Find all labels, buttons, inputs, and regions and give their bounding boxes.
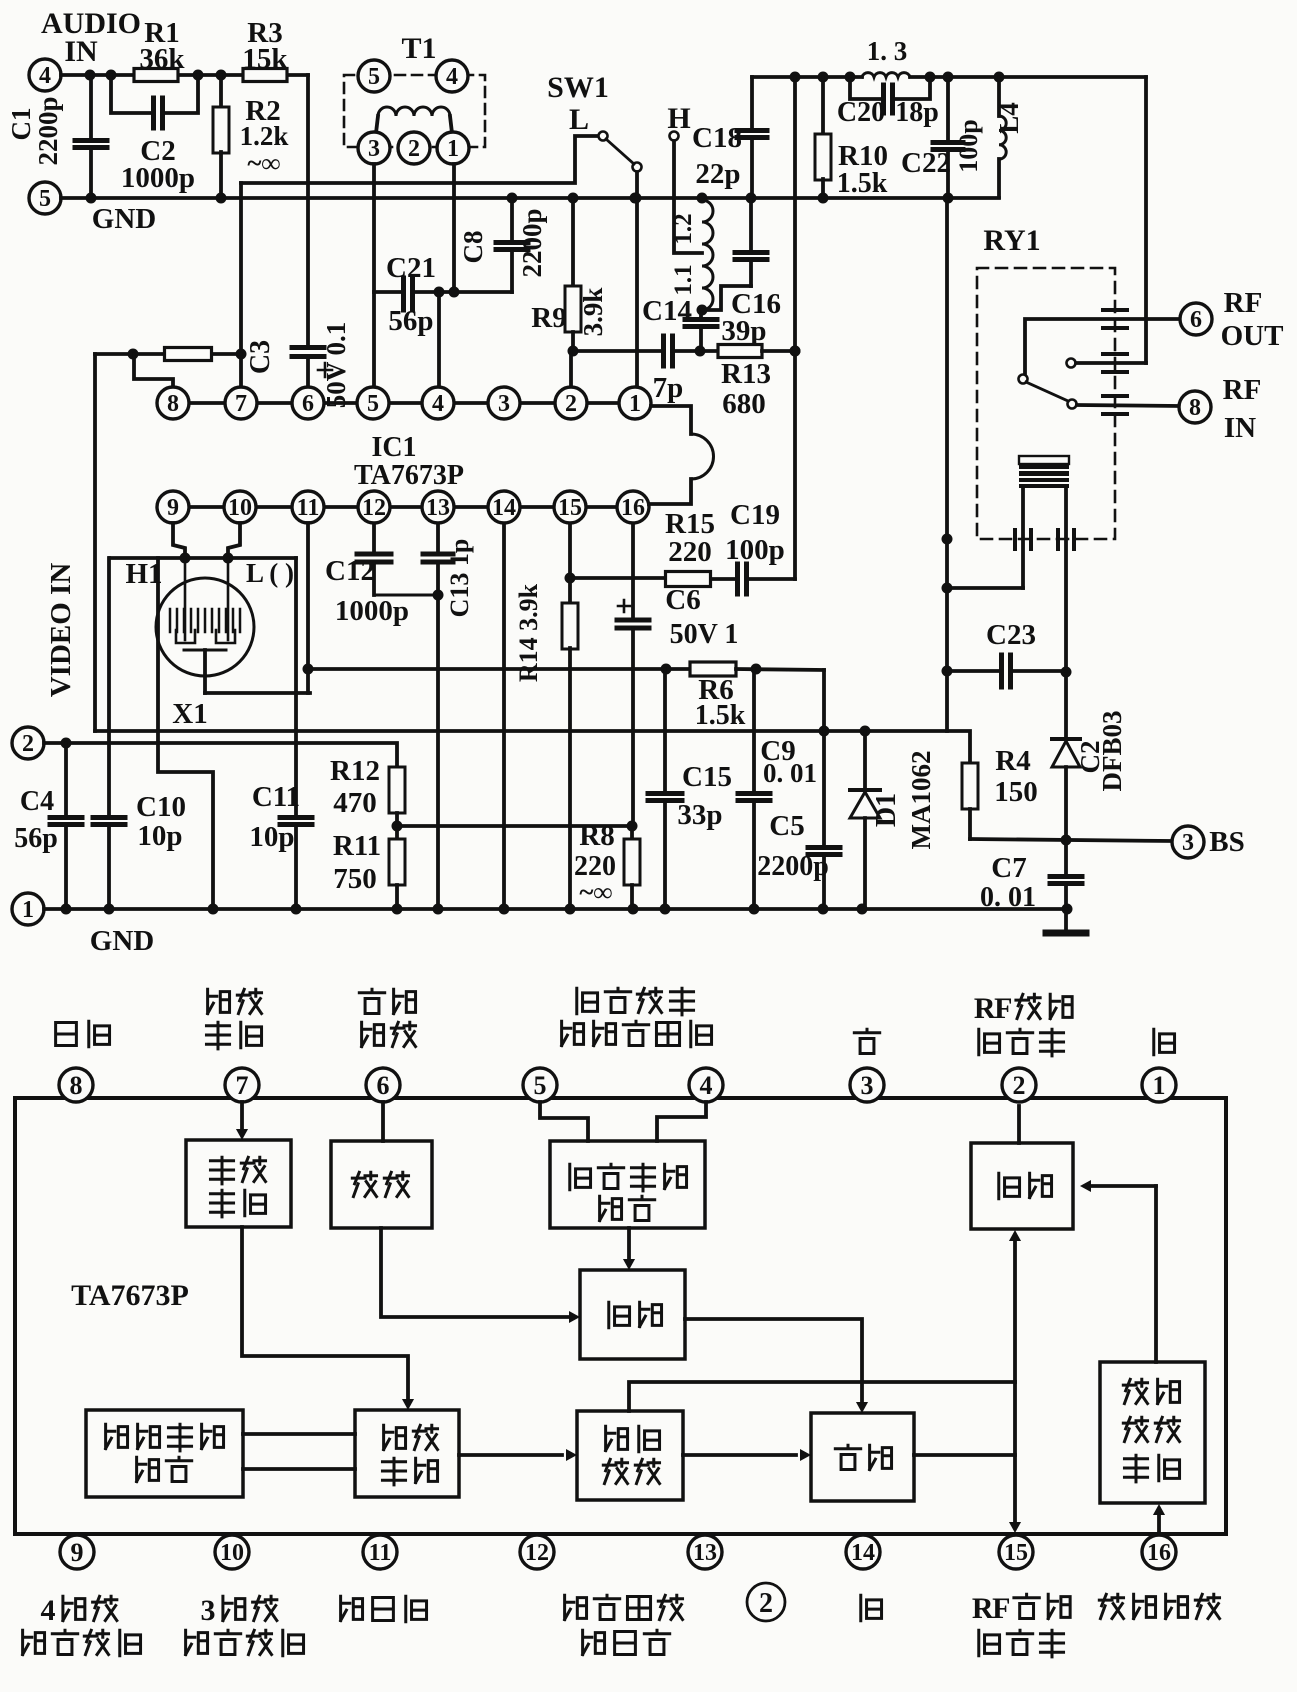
relay contact C to RF IN [1068, 400, 1077, 409]
crystal comb [169, 609, 172, 632]
svg-text:3: 3 [498, 391, 510, 417]
capacitor C15 [663, 669, 667, 791]
svg-text:D1: D1 [871, 793, 902, 827]
svg-text:2200p: 2200p [33, 96, 63, 165]
wire pin14 ground [502, 524, 506, 909]
svg-text:12: 12 [362, 495, 386, 521]
svg-text:470: 470 [333, 787, 377, 819]
svg-text:9: 9 [71, 1538, 84, 1567]
resistor R3 [243, 69, 287, 82]
wire pin7 vertical [239, 183, 243, 387]
svg-text:R13: R13 [721, 358, 771, 390]
svg-text:C21: C21 [386, 252, 436, 284]
capacitor C4 [64, 743, 68, 816]
block pin 7 [225, 1068, 259, 1102]
terminal 3 BS [1172, 826, 1204, 858]
wire bottom ground rail [44, 907, 1067, 911]
svg-text:100p: 100p [725, 534, 785, 566]
wire ground rail y198 [61, 196, 999, 200]
resistor R4 [95, 731, 970, 763]
svg-text:2200p: 2200p [517, 208, 547, 277]
wire buffer top to AM mod [629, 1382, 1015, 1411]
svg-text:F: F [994, 992, 1012, 1025]
svg-text:7p: 7p [653, 372, 684, 404]
svg-text:56p: 56p [14, 823, 58, 854]
feedthrough cap RF IN [1103, 394, 1127, 398]
svg-text:1000p: 1000p [335, 595, 409, 627]
capacitor C6 electrolytic [631, 524, 635, 618]
svg-text:IC1: IC1 [371, 432, 416, 463]
svg-text:C6: C6 [665, 584, 700, 616]
svg-text:IN: IN [1224, 412, 1256, 444]
block channel-convert box [355, 1410, 459, 1497]
svg-text:5: 5 [368, 64, 380, 90]
svg-text:IN: IN [64, 35, 98, 68]
wire pin2 into AM mod [1017, 1106, 1021, 1143]
block FM modulator box [580, 1270, 685, 1359]
block pin 14 [846, 1535, 880, 1569]
wire power vertical x95 [93, 354, 97, 731]
svg-text:GND: GND [90, 925, 154, 957]
feedthrough cap coil right [1056, 530, 1060, 549]
resistor R6 [690, 662, 736, 676]
svg-text:R: R [974, 992, 996, 1025]
svg-text:1: 1 [22, 897, 34, 923]
wire RF OUT to relay pivot [1025, 319, 1180, 374]
crystal cups [176, 630, 235, 643]
feedthrough cap RF OUT [1103, 308, 1127, 312]
svg-text:R4: R4 [995, 745, 1030, 777]
wire crystal case lead [158, 558, 213, 909]
svg-text:13: 13 [426, 495, 450, 521]
svg-text:VIDEO IN: VIDEO IN [45, 563, 77, 698]
svg-text:MA1062: MA1062 [906, 751, 936, 850]
svg-text:18p: 18p [895, 97, 939, 128]
block buffer-amp box [577, 1411, 683, 1500]
block switch-control box [186, 1140, 291, 1227]
svg-text:6: 6 [377, 1071, 390, 1100]
capacitor C8 [510, 198, 514, 241]
inductor 1.1-1.2 coil [702, 200, 713, 310]
svg-text:5: 5 [534, 1071, 547, 1100]
label pin11 function [341, 1596, 363, 1620]
svg-text:1: 1 [1153, 1071, 1166, 1100]
svg-text:C4: C4 [20, 786, 54, 817]
svg-text:C13 1p: C13 1p [445, 539, 474, 618]
block pin 13 [688, 1535, 722, 1569]
block amplifier box [331, 1141, 432, 1228]
capacitor C16 39p [699, 310, 703, 318]
svg-text:9: 9 [167, 495, 179, 521]
wire mixer output vertical [1013, 1238, 1017, 1382]
capacitor C2 [111, 75, 150, 113]
block pin 2 [1002, 1068, 1036, 1102]
wire osc to channel-convert lines [243, 1432, 355, 1436]
svg-text:C22: C22 [901, 147, 951, 179]
wire audio-in rail y75 [61, 73, 134, 77]
svg-text:L4: L4 [994, 102, 1024, 134]
svg-text:22p: 22p [695, 158, 740, 190]
svg-text:14: 14 [492, 495, 516, 521]
inductor 1.3 [862, 73, 910, 77]
wire pin7 into switch-control [240, 1102, 244, 1132]
svg-text:8: 8 [167, 391, 179, 417]
svg-text:3: 3 [1182, 830, 1194, 856]
svg-text:R: R [972, 1592, 994, 1625]
svg-text:C5: C5 [769, 810, 804, 842]
wire pin10 to crystal [228, 523, 240, 558]
capacitor C19 [735, 564, 740, 594]
wire coil bottom step to C16 upper [702, 286, 751, 310]
svg-text:16: 16 [621, 495, 645, 521]
svg-text:11: 11 [369, 1540, 392, 1566]
wire BS line [970, 839, 1172, 841]
block pin 1 [1142, 1068, 1176, 1102]
svg-text:C15: C15 [682, 761, 732, 793]
block pin 4 [689, 1068, 723, 1102]
wire rail to relay contact [1144, 77, 1148, 363]
svg-text:2: 2 [1013, 1071, 1026, 1100]
svg-text:~∞: ~∞ [247, 148, 280, 178]
capacitor C23 [947, 669, 1000, 673]
terminal 1 ground [12, 893, 44, 925]
figure number 2 [747, 1583, 785, 1621]
resistor R1 [134, 69, 178, 82]
svg-text:1.2: 1.2 [670, 213, 697, 244]
block pin 10 [215, 1535, 249, 1569]
capacitor C5 [822, 670, 826, 846]
capacitor C22 [946, 77, 950, 141]
svg-text:3.9k: 3.9k [578, 288, 608, 337]
block pin 9 [60, 1535, 94, 1569]
relay coil [1019, 456, 1069, 464]
svg-text:3: 3 [861, 1071, 874, 1100]
svg-text:4: 4 [432, 391, 444, 417]
feedthrough cap contact A [1103, 352, 1127, 356]
wire C21 node to IC pin4 [437, 292, 441, 387]
svg-text:C19: C19 [730, 499, 780, 531]
wire pin5 jog [540, 1102, 588, 1141]
svg-text:3: 3 [368, 136, 380, 162]
block pin 8 [59, 1068, 93, 1102]
svg-text:F: F [992, 1592, 1010, 1625]
svg-text:6: 6 [1190, 307, 1202, 333]
svg-text:100p: 100p [954, 119, 983, 172]
svg-text:6: 6 [302, 391, 314, 417]
svg-text:X1: X1 [172, 698, 207, 730]
svg-text:10p: 10p [249, 821, 294, 853]
svg-text:14: 14 [851, 1540, 875, 1566]
capacitor C14 7p [661, 336, 666, 366]
svg-text:39p: 39p [721, 315, 766, 347]
svg-text:4: 4 [446, 64, 458, 90]
svg-text:L ( ): L ( ) [246, 558, 294, 588]
wire AM mod right arrow [1088, 1184, 1156, 1188]
wire H contact to coil tap [674, 141, 702, 253]
svg-text:RY1: RY1 [983, 224, 1040, 257]
resistor R11 [389, 839, 405, 885]
svg-text:C23: C23 [986, 619, 1036, 651]
wire pin9 to crystal [173, 523, 185, 558]
svg-text:4: 4 [39, 63, 51, 89]
svg-text:15: 15 [1004, 1540, 1028, 1566]
wire switch-control to channel-convert [242, 1227, 408, 1402]
svg-text:C18: C18 [692, 122, 742, 154]
crystal X1 box [110, 556, 296, 560]
label pin16 function [1099, 1594, 1123, 1618]
wire buffer to mixer [683, 1453, 796, 1457]
resistor R10 [821, 77, 825, 135]
wire R6 line y669 [308, 667, 691, 671]
svg-text:C1: C1 [6, 108, 36, 141]
relay arm [1019, 375, 1028, 384]
diode D1 MA1062 [863, 731, 867, 789]
svg-text:8: 8 [1189, 395, 1201, 421]
svg-text:16: 16 [1147, 1540, 1171, 1566]
svg-text:GND: GND [92, 203, 156, 235]
svg-text:C7: C7 [991, 852, 1026, 884]
svg-text:2200p: 2200p [757, 851, 829, 882]
svg-text:33p: 33p [677, 799, 722, 831]
terminal 2 video [12, 727, 44, 759]
svg-text:150: 150 [994, 776, 1038, 808]
svg-text:RF: RF [1224, 287, 1263, 319]
terminal 6 RF OUT [1180, 303, 1212, 335]
resistor R8 [630, 826, 634, 838]
wire video line y743 [44, 743, 397, 767]
svg-text:7: 7 [235, 391, 247, 417]
svg-text:R9: R9 [531, 302, 566, 334]
relay coil right lead [1064, 488, 1068, 739]
wire audio osc line y578 [570, 576, 666, 580]
svg-text:1: 1 [447, 136, 459, 162]
block pin 6 [366, 1068, 400, 1102]
svg-text:4: 4 [700, 1071, 713, 1100]
wire coil to ground branch y588 [947, 586, 1023, 590]
svg-text:C11: C11 [252, 781, 300, 813]
capacitor C18 [750, 77, 754, 129]
svg-text:C14: C14 [642, 295, 692, 327]
svg-text:1.5k: 1.5k [695, 700, 746, 731]
resistor R12 [389, 767, 405, 813]
resistor R14 [568, 578, 572, 604]
svg-text:1. 3: 1. 3 [867, 36, 908, 66]
wire pin6 into amplifier [381, 1102, 385, 1141]
capacitor C10 line [107, 558, 111, 816]
svg-text:12: 12 [525, 1540, 549, 1566]
svg-text:11: 11 [297, 495, 320, 521]
wire amplifier to FM mod [381, 1228, 570, 1317]
svg-text:C8: C8 [458, 231, 488, 264]
svg-text:BS: BS [1209, 826, 1244, 858]
block pin 11 [363, 1535, 397, 1569]
svg-text:T1: T1 [401, 32, 436, 65]
wire pin15-16 interconnects [568, 524, 572, 578]
capacitor C20 18p [850, 77, 884, 99]
svg-text:RF: RF [1223, 374, 1262, 406]
wire R12-R11 junction to R8 [397, 824, 632, 828]
svg-text:10p: 10p [137, 820, 182, 852]
wire pin11 vertical [306, 523, 310, 693]
svg-text:SW1: SW1 [547, 71, 609, 104]
capacitor C3 [306, 75, 310, 344]
capacitor C11 line [294, 693, 298, 816]
svg-text:13: 13 [693, 1540, 717, 1566]
label pin12-13 function [565, 1595, 587, 1619]
svg-text:8: 8 [70, 1071, 83, 1100]
wire T1-pin1 down [452, 164, 456, 292]
relay contact A [1067, 359, 1076, 368]
block pin 16 [1142, 1535, 1176, 1569]
svg-text:10: 10 [220, 1540, 244, 1566]
wire pin1 to pin16 arc [651, 406, 691, 434]
svg-text:10: 10 [228, 495, 252, 521]
svg-text:750: 750 [333, 863, 377, 895]
resistor R15 [666, 572, 711, 587]
svg-text:R12: R12 [330, 755, 380, 787]
wire oscillator line y351 [573, 349, 663, 353]
wire channel-control line y183 [241, 136, 599, 183]
wire power resistor line y354 [95, 352, 165, 356]
svg-text:C12: C12 [325, 555, 375, 587]
svg-text:R11: R11 [333, 830, 381, 862]
svg-text:~∞: ~∞ [579, 877, 612, 907]
block RF carrier osc box [86, 1410, 243, 1497]
IC1 bottom pin row [173, 505, 633, 509]
svg-text:36k: 36k [139, 43, 185, 75]
wire pin8 jog [134, 354, 173, 387]
wire pin2 vertical [569, 351, 573, 387]
wire R13-C19 vertical x795 [793, 77, 797, 579]
wire T1-pin3 to IC pin5 [372, 164, 376, 387]
svg-text:15k: 15k [242, 43, 288, 75]
resistor R9 [571, 198, 575, 286]
diode C2 DFB03 [1052, 737, 1080, 741]
terminal 5 GND [29, 182, 61, 214]
wire FM mod to mixer [685, 1319, 862, 1405]
svg-text:2: 2 [759, 1588, 773, 1619]
wire ground branch x947 [945, 198, 949, 731]
svg-text:DFB03: DFB03 [1097, 711, 1127, 792]
svg-text:1.2k: 1.2k [240, 121, 289, 151]
wire SW1 arm to IC pin1 [635, 172, 639, 387]
capacitor C13 [436, 524, 440, 552]
svg-text:TA7673P: TA7673P [71, 1279, 189, 1312]
crystal circle [156, 578, 254, 676]
wire osc into FM mod [627, 1228, 631, 1262]
wire RF top rail y77 [752, 75, 862, 79]
svg-text:C10: C10 [136, 791, 186, 823]
svg-text:0. 01: 0. 01 [763, 758, 817, 788]
svg-text:5: 5 [39, 186, 51, 212]
wire pin16 into video amp [1157, 1513, 1161, 1534]
svg-text:TA7673P: TA7673P [354, 460, 464, 491]
svg-text:R8: R8 [579, 820, 614, 852]
feedthrough cap coil left [1013, 530, 1017, 549]
svg-text:4: 4 [41, 1594, 56, 1627]
svg-text:1000p: 1000p [121, 162, 195, 194]
svg-text:5: 5 [367, 391, 379, 417]
svg-text:L: L [569, 103, 589, 136]
block pin 3 [850, 1068, 884, 1102]
capacitor C12 [372, 524, 376, 552]
svg-text:OUT: OUT [1221, 320, 1284, 352]
svg-text:15: 15 [558, 495, 582, 521]
block AM modulator box [971, 1143, 1073, 1229]
svg-text:3: 3 [201, 1594, 216, 1627]
svg-text:H: H [667, 102, 690, 135]
resistor power unlabeled [165, 348, 212, 361]
svg-text:50V 1: 50V 1 [670, 619, 739, 650]
inductor L4 [997, 77, 1001, 116]
svg-text:680: 680 [722, 388, 766, 420]
crystal bottom lead [184, 649, 226, 652]
resistor R2 [219, 75, 223, 108]
capacitor C7 [1064, 841, 1068, 874]
svg-text:1.1: 1.1 [670, 264, 697, 295]
block mixer box [811, 1413, 914, 1501]
svg-text:C20: C20 [837, 97, 885, 128]
capacitor C9 [752, 669, 756, 791]
capacitor C1 [89, 75, 93, 139]
svg-text:56p: 56p [388, 305, 433, 337]
capacitor C16 upper body [749, 262, 753, 286]
ground symbol [1064, 909, 1068, 931]
svg-text:2: 2 [565, 391, 577, 417]
svg-text:2: 2 [22, 731, 34, 757]
block sound-carrier osc box [550, 1141, 705, 1228]
svg-text:220: 220 [668, 536, 712, 568]
block pin 12 [520, 1535, 554, 1569]
svg-text:2: 2 [408, 136, 420, 162]
resistor R13 [718, 345, 762, 358]
wire pin4 jog [657, 1102, 706, 1141]
IC1 top pin row [173, 401, 635, 405]
wire channel-convert to buffer [459, 1453, 562, 1457]
block pin 5 [523, 1068, 557, 1102]
svg-text:1.5k: 1.5k [837, 168, 888, 199]
block diagram outline TA7673P [15, 1098, 1226, 1534]
svg-text:1: 1 [629, 391, 641, 417]
terminal 8 RF IN [1179, 391, 1211, 423]
label pin14 function [861, 1595, 882, 1620]
svg-text:C3: C3 [245, 340, 276, 374]
relay coil left lead [1021, 488, 1025, 588]
svg-text:7: 7 [236, 1071, 249, 1100]
block video-amp clamp box [1100, 1362, 1205, 1503]
block pin 15 [999, 1535, 1033, 1569]
capacitor C21 [374, 290, 404, 294]
